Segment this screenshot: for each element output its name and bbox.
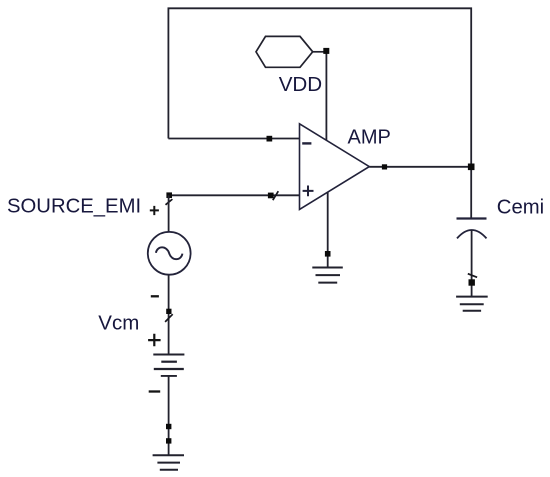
wire non-inverting input — [169, 194, 300, 196]
wire VDD to op-amp power pin — [325, 51, 327, 142]
polarity minus battery — [149, 390, 161, 392]
wire inverting input — [168, 138, 299, 140]
pin ground left — [166, 438, 171, 443]
wire op-amp ground pin — [327, 192, 329, 267]
capacitor Cemi — [457, 219, 487, 239]
wire op-amp output — [369, 166, 471, 168]
wire output node to Cemi — [470, 167, 472, 219]
wire Cemi to ground — [471, 230, 473, 297]
source V_EMI AC circle — [148, 232, 191, 275]
pin Vcm top — [166, 309, 171, 314]
pin op-amp ground — [325, 251, 331, 257]
svg-text:VDD: VDD — [279, 73, 322, 96]
battery Vcm — [153, 355, 184, 376]
pin source top — [166, 192, 172, 198]
ground right — [456, 297, 488, 311]
svg-text:AMP: AMP — [348, 126, 391, 148]
svg-text:Vcm: Vcm — [98, 312, 139, 335]
power symbol VDD hexagon — [256, 36, 326, 67]
op-amp U1 AMP triangle — [300, 124, 370, 210]
pin feedback junction on inverting input — [267, 136, 273, 142]
tick source top — [166, 199, 173, 205]
wire source bottom to battery — [168, 275, 170, 355]
wire feedback loop top — [168, 8, 471, 167]
pin battery bottom — [166, 424, 171, 429]
polarity plus Vcm — [148, 334, 161, 346]
tick Cemi ground — [468, 274, 477, 278]
polarity minus source bottom — [151, 295, 159, 297]
wire battery to ground — [168, 376, 170, 455]
tick non-inverting input — [273, 191, 279, 200]
tick Vcm — [165, 314, 173, 322]
svg-text:SOURCE_EMI: SOURCE_EMI — [7, 196, 141, 218]
node output junction — [468, 164, 475, 171]
ground left — [153, 455, 184, 470]
ground op-amp — [312, 268, 343, 283]
svg-text:Cemi: Cemi — [497, 197, 544, 219]
pin Cemi ground — [469, 279, 475, 285]
pin VDD — [323, 48, 329, 54]
polarity plus SOURCE_EMI — [150, 206, 159, 215]
wire source top — [168, 195, 170, 232]
pin output — [382, 164, 387, 169]
pin non-inverting input — [268, 193, 274, 199]
